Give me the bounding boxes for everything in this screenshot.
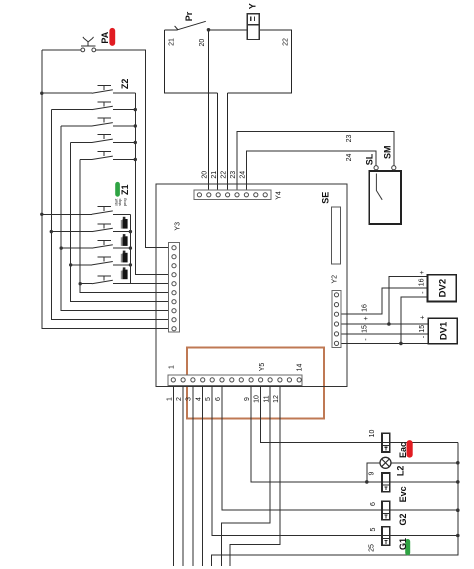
svg-text:+: + (420, 315, 427, 319)
svg-text:Y2: Y2 (332, 275, 339, 284)
svg-text:SM: SM (383, 146, 393, 160)
svg-text:15: 15 (362, 325, 369, 333)
svg-text:SE: SE (321, 192, 331, 204)
svg-text:Y5: Y5 (259, 363, 266, 372)
svg-text:5: 5 (370, 527, 377, 531)
svg-text:15: 15 (419, 325, 426, 333)
svg-text:Y: Y (247, 3, 257, 9)
svg-text:9: 9 (368, 471, 375, 475)
svg-text:22: 22 (220, 171, 227, 179)
svg-text:9: 9 (244, 397, 251, 401)
svg-text:11: 11 (263, 395, 270, 402)
svg-text:+: + (363, 316, 370, 320)
svg-text:22: 22 (283, 38, 290, 46)
svg-text:24: 24 (239, 171, 246, 179)
svg-text:1: 1 (168, 365, 175, 369)
svg-text:G2: G2 (398, 513, 408, 525)
svg-text:20: 20 (199, 39, 206, 47)
svg-text:Y4: Y4 (275, 191, 282, 200)
svg-text:20: 20 (202, 171, 209, 179)
svg-text:DV1: DV1 (438, 321, 449, 340)
svg-text:L2: L2 (395, 466, 405, 477)
svg-text:PA: PA (100, 31, 110, 43)
svg-text:Z1: Z1 (120, 184, 130, 195)
svg-text:DV2: DV2 (438, 279, 449, 297)
svg-text:stop: stop (118, 199, 122, 206)
svg-text:+: + (419, 271, 426, 275)
svg-text:Evc: Evc (398, 486, 408, 502)
svg-text:prog: prog (123, 198, 127, 206)
svg-text:10: 10 (254, 395, 261, 403)
svg-text:Y3: Y3 (174, 222, 181, 231)
svg-text:Eac: Eac (398, 442, 408, 458)
svg-text:5: 5 (205, 397, 212, 401)
svg-text:23: 23 (346, 135, 353, 143)
svg-text:Z2: Z2 (120, 79, 130, 90)
svg-text:24: 24 (346, 154, 353, 162)
svg-text:6: 6 (370, 502, 377, 506)
svg-text:21: 21 (169, 38, 176, 46)
svg-text:1: 1 (166, 397, 173, 401)
svg-text:14: 14 (296, 364, 303, 372)
svg-text:16: 16 (419, 278, 426, 286)
svg-text:23: 23 (230, 171, 237, 179)
svg-text:6: 6 (215, 397, 222, 401)
svg-text:2: 2 (176, 397, 183, 401)
svg-text:G1: G1 (398, 538, 408, 550)
svg-text:16: 16 (362, 304, 369, 312)
svg-text:21: 21 (211, 171, 218, 179)
svg-text:4: 4 (195, 397, 202, 401)
svg-text:25: 25 (369, 544, 376, 552)
svg-text:3: 3 (186, 397, 193, 401)
svg-text:10: 10 (369, 430, 376, 438)
svg-text:12: 12 (273, 395, 280, 403)
svg-text:SL: SL (365, 153, 375, 165)
svg-text:Pr: Pr (184, 11, 194, 21)
